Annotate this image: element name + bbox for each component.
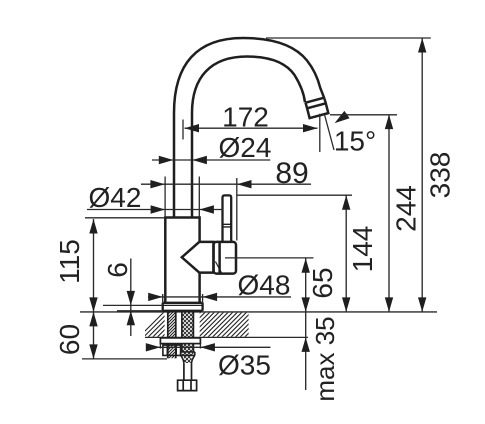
faucet base plate — [163, 303, 203, 311]
dim 6 — [130, 259, 132, 337]
hose end nut — [178, 380, 197, 390]
supply hose braid — [178, 298, 196, 380]
svg-text:6: 6 — [102, 262, 133, 278]
dim 144 — [345, 195, 347, 312]
stud nut — [163, 345, 181, 355]
svg-text:65: 65 — [307, 267, 338, 298]
15 deg reference lines — [320, 114, 334, 152]
15 deg leader arrow — [338, 114, 348, 121]
handle hub — [214, 242, 237, 274]
counter hatch left — [136, 309, 282, 340]
dim 60 — [93, 312, 95, 359]
dim 172 — [185, 127, 318, 129]
dim D24 — [152, 159, 270, 161]
hose crimp collar — [181, 352, 195, 356]
dim 244 — [388, 115, 390, 312]
dim D35 — [147, 346, 271, 348]
spout outer curve — [174, 38, 324, 113]
svg-text:115: 115 — [54, 239, 85, 284]
counter hatch right — [136, 309, 282, 340]
counter top line — [80, 311, 437, 313]
dim 89 — [141, 183, 311, 185]
svg-text:89: 89 — [275, 157, 308, 190]
spout inner curve — [192, 57, 305, 114]
threaded stud — [164, 304, 178, 372]
handle lever — [223, 195, 232, 242]
riser pipe — [174, 113, 192, 218]
spout junction cone — [182, 242, 214, 273]
mounting washer — [160, 338, 200, 344]
svg-text:338: 338 — [425, 152, 456, 199]
svg-text:max 35: max 35 — [310, 316, 340, 401]
svg-text:Ø48: Ø48 — [238, 270, 291, 301]
dim 115 — [93, 219, 95, 312]
svg-text:Ø24: Ø24 — [219, 132, 272, 163]
dim max 35 — [305, 312, 307, 390]
hose tube — [184, 364, 192, 380]
dim D42 — [87, 209, 223, 211]
ext line body top — [85, 217, 165, 219]
svg-text:Ø42: Ø42 — [89, 182, 142, 213]
aerator tip — [306, 98, 329, 118]
svg-text:60: 60 — [54, 324, 85, 355]
svg-text:172: 172 — [222, 102, 269, 133]
svg-text:244: 244 — [391, 185, 422, 232]
dim D48 — [148, 296, 291, 298]
dim 65 — [305, 258, 307, 312]
faucet body — [165, 218, 199, 303]
svg-text:144: 144 — [347, 226, 378, 273]
dim 338 — [421, 38, 423, 312]
svg-text:Ø35: Ø35 — [218, 350, 271, 381]
counter bottom line — [145, 336, 308, 338]
svg-text:15°: 15° — [334, 126, 376, 157]
